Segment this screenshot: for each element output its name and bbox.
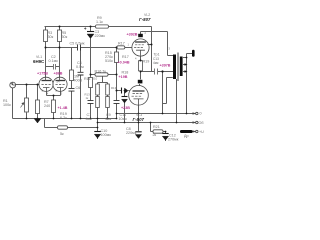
resistor R19 feedback 5k bbox=[58, 126, 68, 129]
svg-text:R19: R19 bbox=[143, 60, 150, 64]
anode top cap VL3 bbox=[138, 80, 143, 84]
svg-text:R17: R17 bbox=[118, 42, 125, 46]
wire screen stub to VL2 bbox=[149, 44, 152, 46]
svg-text:24: 24 bbox=[57, 80, 61, 84]
svg-text:Г-807: Г-807 bbox=[133, 117, 145, 122]
resistor R14 twin right bbox=[106, 97, 110, 108]
capacitor C9 electrolytic x138 bbox=[135, 132, 141, 139]
svg-text:510к: 510к bbox=[105, 59, 113, 63]
wire VL2 cathode bbox=[140, 55, 142, 79]
wire x97.5 link bbox=[97, 119, 99, 140]
svg-text:R16 7к: R16 7к bbox=[95, 69, 107, 73]
tube VL3 G-807 bbox=[129, 86, 149, 106]
wire screen riser x151.5 bbox=[151, 27, 153, 72]
svg-text:400В: 400В bbox=[74, 79, 83, 83]
transformer T1 secondary bbox=[180, 57, 183, 77]
capacitor C12 electrolytic bbox=[162, 134, 168, 141]
terminal bar top tap bbox=[192, 50, 195, 57]
wire cathode node y71.5 bbox=[141, 71, 174, 73]
svg-text:С5 0.5мк: С5 0.5мк bbox=[70, 41, 85, 45]
svg-text:+175В: +175В bbox=[37, 72, 48, 76]
svg-text:R18: R18 bbox=[122, 71, 129, 75]
wire VL3 grid feed y90.5 bbox=[117, 90, 130, 92]
resistor R2 x37 bbox=[36, 100, 40, 114]
resistor R15 bbox=[115, 52, 119, 63]
capacitor C8 electrolytic in grid line bbox=[122, 88, 129, 94]
wire pot bottom bbox=[27, 113, 38, 119]
svg-text:Об: Об bbox=[199, 121, 204, 125]
wire anode coupling y47 bbox=[46, 47, 132, 49]
potentiometer R1 bbox=[25, 98, 29, 112]
wire primary bottom step bbox=[163, 72, 173, 114]
labels gray bbox=[3, 16, 204, 142]
svg-text:100мк: 100мк bbox=[101, 133, 112, 137]
wire tap top bbox=[183, 54, 192, 58]
wire output line y113.5 bbox=[117, 113, 195, 115]
pot wiper arrow bbox=[21, 103, 24, 108]
svg-text:270мк: 270мк bbox=[168, 138, 179, 142]
triode VL1.2 bbox=[53, 77, 67, 91]
wire input tip y84.5 bbox=[15, 84, 39, 86]
resistor R17 grid stopper VL2 bbox=[117, 46, 125, 49]
wire tap selector x186.5 bbox=[186, 58, 188, 114]
svg-text:Г-807: Г-807 bbox=[139, 17, 151, 22]
resistor R11 x90 bbox=[89, 78, 93, 88]
capacitor C2 anode link bbox=[54, 64, 56, 70]
svg-text:220мк: 220мк bbox=[95, 34, 106, 38]
svg-text:+U: +U bbox=[199, 130, 204, 134]
junction dots bbox=[26, 26, 188, 133]
svg-text:R11: R11 bbox=[84, 77, 91, 81]
wire C12 drop bbox=[165, 132, 167, 142]
labels magenta voltages bbox=[37, 33, 171, 111]
anode top cap VL2 bbox=[138, 34, 143, 37]
tap arrow y64 bbox=[185, 63, 188, 66]
capacitor C6 x71 bbox=[69, 88, 75, 91]
transformer T1 primary bbox=[173, 55, 176, 80]
wire cathodes driver bbox=[47, 91, 61, 119]
wire ground bus y118.5 bbox=[13, 118, 117, 120]
tube VL2 G-807 bbox=[132, 39, 152, 56]
svg-text:R17: R17 bbox=[122, 55, 129, 59]
svg-text:C6: C6 bbox=[76, 86, 81, 90]
output terminal 2 bbox=[193, 121, 199, 123]
svg-text:220мк: 220мк bbox=[126, 131, 137, 135]
wire twin resistor tie bbox=[98, 76, 108, 118]
capacitor C4 x80 bbox=[78, 72, 84, 75]
wire bus right y122.5 bbox=[98, 122, 195, 124]
transformer core bbox=[178, 53, 179, 82]
ground symbol bbox=[34, 119, 41, 124]
svg-text:+19В: +19В bbox=[119, 75, 128, 79]
svg-text:2к: 2к bbox=[153, 133, 157, 137]
svg-text:+23В: +23В bbox=[121, 106, 130, 110]
capacitor C13 on cathode node bbox=[155, 69, 158, 75]
svg-text:100к: 100к bbox=[3, 103, 11, 107]
wire grid drop x37.5 bbox=[37, 85, 39, 101]
input jack XS1 bbox=[10, 82, 16, 88]
wire feedback y127.5 bbox=[45, 119, 98, 128]
output terminal 3 bbox=[193, 130, 199, 132]
wire C4 branch x80.5 bbox=[80, 48, 82, 119]
wire tap y64 bbox=[183, 64, 185, 66]
capacitor C7 in x90 chain bbox=[88, 101, 94, 104]
svg-text:+1.4В: +1.4В bbox=[58, 106, 68, 110]
wire tap y71 bbox=[183, 71, 185, 73]
svg-text:240: 240 bbox=[44, 104, 50, 108]
tap arrow y71 bbox=[185, 70, 188, 73]
svg-text:1.1к: 1.1к bbox=[96, 20, 103, 24]
svg-text:510: 510 bbox=[93, 77, 98, 81]
resistor R9 horizontal on rail bbox=[96, 25, 109, 28]
svg-text:R21: R21 bbox=[153, 125, 160, 129]
wire x124.5 cap drop C11 bbox=[124, 91, 126, 123]
wire divider x116.5 bbox=[116, 48, 118, 119]
wire top B+ rail bbox=[45, 26, 152, 28]
capacitor C9 in x116 chain bbox=[114, 101, 120, 104]
resistor R3 bbox=[44, 30, 48, 42]
wire VL3 cathode bbox=[138, 105, 140, 114]
wire R5 branch bbox=[59, 27, 61, 78]
wire y74.5 R16 bbox=[91, 74, 117, 76]
resistor R16 horizontal bbox=[95, 73, 108, 76]
wire supply line y131.5 bbox=[151, 123, 195, 132]
choke Dr1 bbox=[180, 130, 193, 133]
svg-text:5к: 5к bbox=[60, 132, 64, 136]
wire VL3 anode stub bbox=[139, 84, 141, 86]
capacitor C3 electrolytic bbox=[84, 27, 94, 38]
wire anode line VL2 to transformer bbox=[141, 32, 174, 56]
wire VL3 cathode to bus bbox=[138, 114, 140, 123]
svg-text:4мк: 4мк bbox=[105, 117, 112, 121]
wire R8 branch x71.5 bbox=[71, 48, 73, 119]
wire C3 branch x90.5 bbox=[90, 27, 92, 119]
wire anode cap riser VL2 bbox=[140, 32, 142, 35]
capacitor C5 coupling bbox=[78, 45, 81, 51]
resistor R7 cathode bbox=[52, 100, 56, 113]
capacitor C10 electrolytic x97 bbox=[94, 132, 101, 139]
wire jack sleeve x12.5 bbox=[12, 88, 14, 119]
labels black tube names bbox=[33, 13, 151, 122]
resistor R17b cathode VL2 bbox=[139, 61, 143, 71]
resistor R12 upper left bbox=[96, 84, 100, 95]
svg-text:+0.04В: +0.04В bbox=[118, 61, 130, 65]
output terminal 1 bbox=[193, 112, 199, 114]
svg-text:4мк: 4мк bbox=[86, 117, 93, 121]
resistor R14 upper right bbox=[106, 84, 110, 95]
svg-text:0: 0 bbox=[200, 112, 202, 116]
svg-text:R13: R13 bbox=[111, 86, 117, 90]
wire R3 branch bbox=[45, 27, 47, 78]
svg-text:0.5м: 0.5м bbox=[76, 65, 84, 69]
svg-text:0.1мк: 0.1мк bbox=[49, 59, 59, 63]
wire anode link y66.5 bbox=[46, 66, 60, 68]
svg-text:+86В: +86В bbox=[54, 72, 63, 76]
capacitor C11 electrolytic x124 bbox=[122, 97, 128, 104]
svg-text:6Н9С: 6Н9С bbox=[33, 59, 45, 64]
svg-text:6.2к: 6.2к bbox=[60, 116, 67, 120]
svg-text:Тр1: Тр1 bbox=[154, 52, 160, 56]
svg-text:30к: 30к bbox=[62, 35, 68, 39]
svg-text:4мк: 4мк bbox=[153, 61, 159, 65]
wire x176.5 secondary ground bbox=[176, 79, 178, 123]
resistor R8 vertical x71 bbox=[70, 70, 74, 81]
svg-text:10мк: 10мк bbox=[119, 117, 128, 121]
svg-text:Др: Др bbox=[184, 134, 189, 138]
resistor R21 bbox=[153, 130, 163, 133]
svg-text:30к: 30к bbox=[48, 35, 54, 39]
wire pot drop x26.5 bbox=[26, 85, 28, 99]
resistor R13 twin left bbox=[96, 97, 100, 108]
resistor R5 bbox=[58, 30, 62, 42]
svg-text:+397В: +397В bbox=[160, 64, 171, 68]
triode VL1.1 bbox=[39, 77, 53, 91]
svg-text:+392В: +392В bbox=[127, 33, 138, 37]
